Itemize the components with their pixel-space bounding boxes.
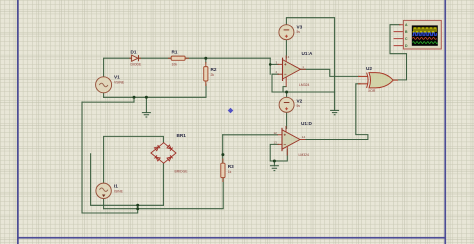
svg-text:BRIDGE: BRIDGE [175, 170, 189, 174]
wire R2 top stub [205, 58, 207, 63]
resistor R3 [221, 159, 225, 183]
svg-text:DIODE: DIODE [131, 62, 142, 66]
sheet border left [17, 0, 19, 244]
ground (U1:D loop) [270, 166, 279, 171]
svg-text:V2: V2 [297, 98, 303, 103]
wire R3 top to U1:D + input [223, 134, 278, 136]
svg-text:ISINE: ISINE [114, 189, 124, 193]
diode bl [154, 155, 160, 161]
wire ground tap [145, 97, 147, 112]
current source I1 [96, 183, 111, 198]
svg-text:13: 13 [274, 140, 278, 144]
svg-text:V1: V1 [114, 75, 120, 80]
wire main vertical down to inputs [269, 58, 271, 74]
svg-text:2k: 2k [211, 73, 215, 77]
svg-text:I1: I1 [114, 184, 118, 189]
svg-text:BR1: BR1 [177, 133, 187, 138]
wire ground rail mid [272, 91, 335, 93]
svg-text:5v: 5v [297, 30, 301, 34]
wire branch to U1:A + input [270, 63, 278, 65]
svg-text:V3: V3 [297, 24, 303, 29]
wire bottom rail V1 to R2 [104, 84, 206, 97]
svg-text:12: 12 [274, 131, 278, 135]
node U1:A plus branch [269, 63, 272, 66]
node ground tap junction [145, 96, 148, 99]
svg-text:5v: 5v [297, 104, 301, 108]
node R3 top junction [221, 153, 224, 156]
svg-text:LM324: LM324 [299, 83, 309, 87]
node rail join left [133, 96, 136, 99]
resistor R1 [168, 56, 189, 60]
oscilloscope [394, 20, 442, 49]
svg-text:U1:D: U1:D [301, 121, 313, 126]
bridge rectifier BR1 [151, 143, 176, 164]
svg-text:U1:A: U1:A [302, 51, 314, 56]
dc source V2 [279, 97, 294, 112]
op-amp U1:D [278, 126, 306, 156]
wire U1:A output to XOR upper input [301, 69, 361, 76]
origin marker [228, 108, 234, 114]
sine source V1 [96, 77, 112, 93]
wire U1:A - input to rail [272, 74, 279, 92]
svg-text:LM324: LM324 [299, 153, 309, 157]
trace yellow [413, 28, 437, 32]
pin letters [405, 23, 408, 48]
wire U1:D - feedback loop to ground [270, 144, 287, 161]
svg-text:VSINE: VSINE [114, 81, 125, 85]
wire rail B to R3 bottom [104, 177, 224, 209]
diode D1 [129, 55, 141, 61]
wire rail A dangling left vertical [91, 154, 164, 206]
svg-text:R2: R2 [211, 67, 217, 72]
wire R3 top vertical [222, 135, 224, 164]
wire outer left top link [82, 97, 134, 102]
resistor R2 [204, 62, 208, 86]
wire ground stub U1:D [273, 161, 275, 166]
wire I1 top to bridge top [104, 136, 164, 184]
svg-text:R3: R3 [228, 164, 234, 169]
ground (V3 rail) [330, 110, 339, 114]
svg-text:1k: 1k [228, 170, 232, 174]
wire V2 top tap [286, 92, 288, 98]
ground (near V1 rail) [142, 113, 151, 117]
wire V1 bottom [103, 92, 105, 97]
svg-text:XOR: XOR [368, 89, 376, 93]
svg-text:10k: 10k [172, 62, 178, 66]
junction dots [133, 57, 289, 211]
diode br [167, 155, 173, 161]
pin numbers U1:A [276, 55, 305, 74]
node R2 top junction [204, 57, 207, 60]
xor gate U2 [358, 73, 398, 88]
node rail B junction [136, 207, 139, 210]
op-amp U1:A [278, 56, 306, 87]
node rail A junction [136, 204, 139, 207]
trace blue [413, 33, 437, 35]
diode tr [167, 145, 173, 151]
wire V1 top to D1/R1 main line [104, 58, 271, 77]
wire bridge bottom vertical [162, 163, 164, 205]
wire V2 bottom to U1:D power [286, 112, 288, 129]
wire XOR output to scope pin A [390, 25, 407, 80]
wire V3 loop to ground [286, 18, 334, 111]
trace green [413, 42, 438, 44]
svg-text:R1: R1 [172, 49, 178, 54]
trace red [413, 37, 437, 39]
svg-text:U2: U2 [366, 66, 372, 71]
wire op-amp A bottom power step [283, 87, 286, 92]
sheet border right [444, 0, 446, 244]
sheet border bottom [17, 237, 446, 239]
node U1:D ground junction [273, 160, 276, 163]
dc source V3 [279, 25, 294, 40]
wire outer left loop [82, 102, 138, 213]
svg-text:D1: D1 [131, 49, 137, 54]
svg-text:14: 14 [302, 135, 306, 139]
wire I1 bottom to rail B [103, 198, 105, 209]
node V2 top junction [285, 91, 288, 94]
wire U1:D output to XOR lower input [300, 84, 368, 140]
pin numbers U1:D [274, 131, 306, 145]
wire V3 bottom to op-amp A power [285, 39, 287, 58]
diode tl [154, 145, 160, 151]
